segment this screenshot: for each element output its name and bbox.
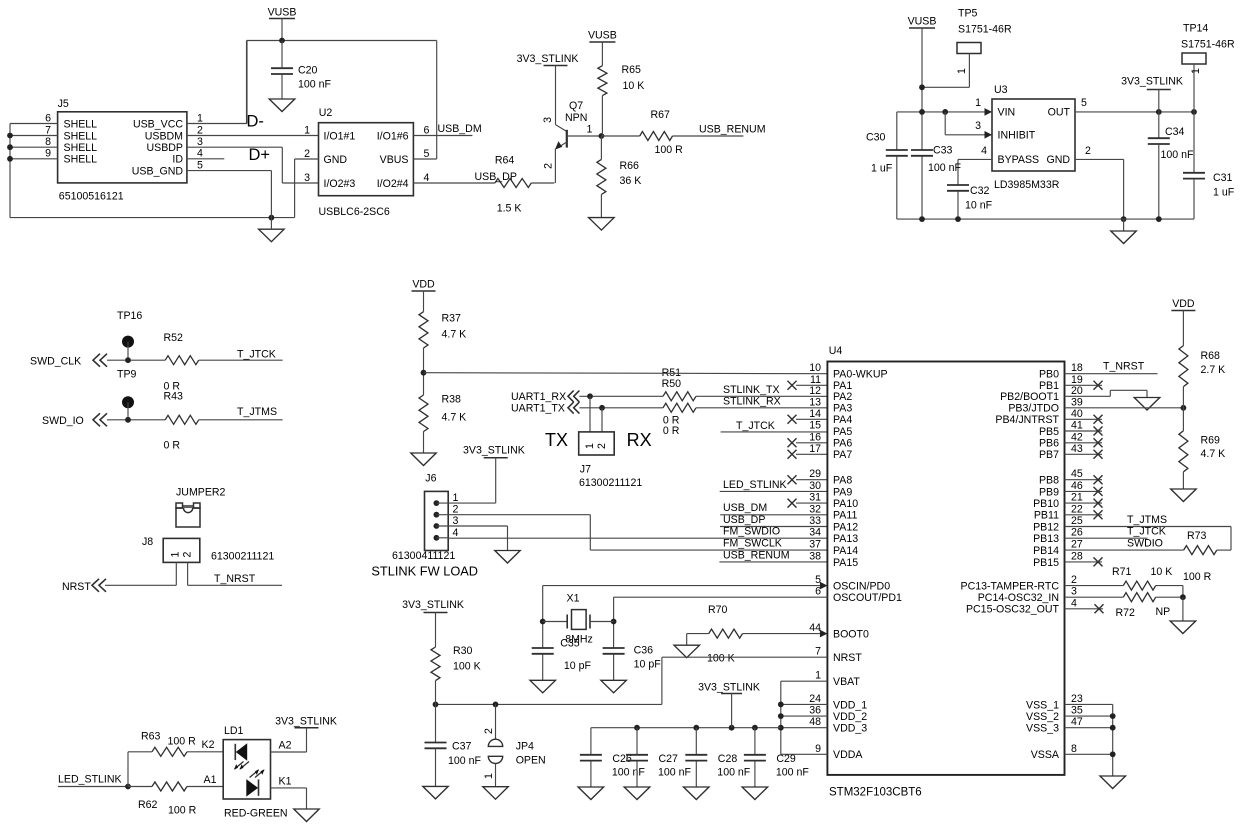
svg-text:39: 39 bbox=[1071, 396, 1083, 408]
svg-text:PB9: PB9 bbox=[1039, 486, 1059, 498]
svg-text:PA10: PA10 bbox=[833, 498, 858, 510]
svg-text:PB0: PB0 bbox=[1039, 369, 1059, 381]
svg-text:R62: R62 bbox=[138, 799, 158, 811]
svg-text:PA11: PA11 bbox=[833, 510, 857, 522]
svg-text:14: 14 bbox=[809, 408, 821, 420]
svg-text:6: 6 bbox=[45, 112, 51, 124]
svg-text:PA3: PA3 bbox=[833, 403, 852, 415]
svg-text:PB14: PB14 bbox=[1033, 545, 1059, 557]
svg-text:34: 34 bbox=[809, 527, 821, 539]
svg-text:6: 6 bbox=[424, 124, 430, 136]
svg-text:LD3985M33R: LD3985M33R bbox=[994, 179, 1060, 191]
svg-text:USB_DM: USB_DM bbox=[723, 502, 767, 514]
svg-text:R43: R43 bbox=[164, 391, 184, 403]
svg-text:PB13: PB13 bbox=[1033, 533, 1059, 545]
svg-text:U3: U3 bbox=[994, 84, 1008, 96]
svg-text:2: 2 bbox=[197, 124, 203, 136]
svg-text:3V3_STLINK: 3V3_STLINK bbox=[463, 445, 525, 457]
svg-text:TP9: TP9 bbox=[117, 369, 137, 381]
svg-text:USB_DP: USB_DP bbox=[475, 171, 517, 183]
svg-text:VUSB: VUSB bbox=[908, 16, 937, 28]
svg-text:42: 42 bbox=[1071, 431, 1083, 443]
svg-text:I/O1#1: I/O1#1 bbox=[324, 130, 356, 142]
svg-text:40: 40 bbox=[1071, 408, 1083, 420]
svg-text:PB6: PB6 bbox=[1039, 438, 1059, 450]
svg-text:TP16: TP16 bbox=[117, 310, 142, 322]
svg-text:TX: TX bbox=[545, 430, 568, 450]
svg-text:PA6: PA6 bbox=[833, 438, 852, 450]
svg-text:Q7: Q7 bbox=[569, 100, 583, 112]
svg-text:0 R: 0 R bbox=[663, 425, 680, 437]
svg-text:PA2: PA2 bbox=[833, 391, 852, 403]
svg-text:PA9: PA9 bbox=[833, 486, 852, 498]
svg-text:R65: R65 bbox=[622, 64, 642, 76]
svg-text:36: 36 bbox=[809, 705, 821, 717]
svg-text:47: 47 bbox=[1071, 716, 1083, 728]
svg-text:USB_DP: USB_DP bbox=[723, 514, 765, 526]
svg-text:PA12: PA12 bbox=[833, 521, 858, 533]
svg-text:LED_STLINK: LED_STLINK bbox=[723, 479, 787, 491]
svg-text:PA14: PA14 bbox=[833, 545, 858, 557]
svg-text:1: 1 bbox=[170, 551, 182, 557]
svg-text:VSS_2: VSS_2 bbox=[1026, 711, 1059, 723]
svg-text:100 nF: 100 nF bbox=[928, 162, 962, 174]
svg-text:2: 2 bbox=[1085, 145, 1091, 157]
svg-text:100 nF: 100 nF bbox=[658, 767, 692, 779]
svg-text:C34: C34 bbox=[1165, 126, 1185, 138]
svg-text:T_NRST: T_NRST bbox=[214, 573, 256, 585]
svg-text:INHIBIT: INHIBIT bbox=[998, 130, 1036, 142]
svg-text:A1: A1 bbox=[204, 774, 217, 786]
svg-text:61300211121: 61300211121 bbox=[579, 477, 642, 489]
svg-text:1: 1 bbox=[304, 124, 310, 136]
svg-text:100 nF: 100 nF bbox=[298, 79, 332, 91]
svg-text:4.7 K: 4.7 K bbox=[1201, 448, 1226, 460]
svg-text:VSS_1: VSS_1 bbox=[1026, 699, 1059, 711]
svg-text:VDD_3: VDD_3 bbox=[833, 723, 867, 735]
svg-text:20: 20 bbox=[1071, 385, 1083, 397]
svg-text:I/O2#4: I/O2#4 bbox=[377, 178, 409, 190]
svg-text:2.7 K: 2.7 K bbox=[1201, 364, 1226, 376]
svg-text:PA5: PA5 bbox=[833, 426, 852, 438]
svg-text:1: 1 bbox=[197, 112, 203, 124]
svg-text:33: 33 bbox=[809, 515, 821, 527]
svg-text:JP4: JP4 bbox=[516, 741, 534, 753]
svg-text:LD1: LD1 bbox=[224, 725, 244, 737]
svg-text:R37: R37 bbox=[442, 313, 462, 325]
svg-text:VDDA: VDDA bbox=[833, 749, 863, 761]
svg-text:PA15: PA15 bbox=[833, 557, 858, 569]
svg-text:BYPASS: BYPASS bbox=[998, 154, 1040, 166]
svg-text:STLINK_RX: STLINK_RX bbox=[723, 395, 781, 407]
svg-text:A2: A2 bbox=[279, 740, 292, 752]
svg-text:C27: C27 bbox=[659, 753, 679, 765]
svg-text:5: 5 bbox=[424, 148, 430, 160]
svg-text:VUSB: VUSB bbox=[268, 7, 297, 19]
svg-text:28: 28 bbox=[1071, 550, 1083, 562]
svg-text:C33: C33 bbox=[933, 145, 953, 157]
svg-text:T_JTCK: T_JTCK bbox=[1127, 526, 1166, 538]
svg-text:9: 9 bbox=[45, 148, 51, 160]
svg-text:PB2/BOOT1: PB2/BOOT1 bbox=[1000, 391, 1059, 403]
svg-text:OSCOUT/PD1: OSCOUT/PD1 bbox=[833, 592, 902, 604]
svg-text:8: 8 bbox=[45, 136, 51, 148]
svg-text:3: 3 bbox=[197, 136, 203, 148]
svg-text:VIN: VIN bbox=[998, 107, 1016, 119]
svg-text:R50: R50 bbox=[662, 378, 682, 390]
svg-text:T_JTMS: T_JTMS bbox=[237, 406, 277, 418]
svg-text:17: 17 bbox=[809, 443, 821, 455]
svg-text:R67: R67 bbox=[651, 109, 671, 121]
svg-text:VDD_2: VDD_2 bbox=[833, 711, 867, 723]
svg-text:VBUS: VBUS bbox=[380, 154, 409, 166]
svg-text:24: 24 bbox=[809, 693, 821, 705]
svg-text:PA8: PA8 bbox=[833, 475, 852, 487]
svg-text:NRST: NRST bbox=[62, 581, 91, 593]
svg-text:T_JTMS: T_JTMS bbox=[1127, 514, 1167, 526]
svg-text:2: 2 bbox=[483, 728, 495, 734]
svg-text:41: 41 bbox=[1071, 420, 1083, 432]
svg-text:PB10: PB10 bbox=[1033, 498, 1059, 510]
svg-text:10 K: 10 K bbox=[1151, 566, 1173, 578]
svg-text:C28: C28 bbox=[718, 753, 738, 765]
svg-text:3: 3 bbox=[542, 117, 554, 123]
svg-text:S1751-46R: S1751-46R bbox=[958, 24, 1012, 36]
svg-text:37: 37 bbox=[809, 539, 821, 551]
svg-text:R72: R72 bbox=[1116, 607, 1136, 619]
svg-text:1: 1 bbox=[453, 492, 459, 504]
svg-text:48: 48 bbox=[809, 716, 821, 728]
svg-text:35: 35 bbox=[1071, 705, 1083, 717]
svg-text:VBAT: VBAT bbox=[833, 676, 860, 688]
svg-text:R63: R63 bbox=[141, 731, 161, 743]
svg-text:16: 16 bbox=[809, 431, 821, 443]
svg-text:1.5 K: 1.5 K bbox=[497, 203, 522, 215]
svg-text:3: 3 bbox=[453, 515, 459, 527]
svg-text:D+: D+ bbox=[249, 146, 271, 164]
svg-text:C37: C37 bbox=[452, 741, 472, 753]
svg-text:STLINK FW LOAD: STLINK FW LOAD bbox=[371, 563, 478, 578]
svg-text:T_JTCK: T_JTCK bbox=[237, 349, 276, 361]
svg-text:1: 1 bbox=[584, 443, 596, 449]
svg-text:100 R: 100 R bbox=[168, 805, 197, 817]
svg-text:VDD_1: VDD_1 bbox=[833, 699, 867, 711]
svg-text:PB12: PB12 bbox=[1033, 521, 1059, 533]
svg-text:4: 4 bbox=[424, 172, 430, 184]
svg-text:4.7 K: 4.7 K bbox=[442, 329, 467, 341]
svg-text:65100516121: 65100516121 bbox=[59, 191, 124, 203]
svg-text:12: 12 bbox=[809, 385, 821, 397]
svg-text:PB8: PB8 bbox=[1039, 475, 1059, 487]
svg-text:7: 7 bbox=[815, 646, 821, 658]
svg-text:OUT: OUT bbox=[1048, 107, 1071, 119]
svg-text:32: 32 bbox=[809, 503, 821, 515]
svg-text:U2: U2 bbox=[319, 107, 333, 119]
svg-text:1 uF: 1 uF bbox=[871, 163, 893, 175]
svg-text:9: 9 bbox=[815, 743, 821, 755]
svg-text:I/O2#3: I/O2#3 bbox=[324, 178, 356, 190]
svg-text:100 nF: 100 nF bbox=[612, 767, 646, 779]
svg-text:46: 46 bbox=[1071, 480, 1083, 492]
svg-text:R69: R69 bbox=[1201, 435, 1221, 447]
svg-text:1: 1 bbox=[587, 124, 593, 136]
svg-text:BOOT0: BOOT0 bbox=[833, 629, 869, 641]
svg-text:USBDM: USBDM bbox=[145, 130, 183, 142]
svg-text:100 nF: 100 nF bbox=[776, 767, 810, 779]
svg-text:100 K: 100 K bbox=[453, 661, 481, 673]
svg-text:ID: ID bbox=[172, 154, 183, 166]
svg-text:USBLC6-2SC6: USBLC6-2SC6 bbox=[319, 206, 390, 218]
svg-text:10 pF: 10 pF bbox=[634, 659, 662, 671]
svg-text:R71: R71 bbox=[1112, 566, 1132, 578]
svg-text:4.7 K: 4.7 K bbox=[442, 412, 467, 424]
svg-text:27: 27 bbox=[1071, 539, 1083, 551]
svg-text:8MHz: 8MHz bbox=[565, 633, 593, 645]
svg-text:1: 1 bbox=[483, 773, 495, 779]
svg-text:R52: R52 bbox=[164, 332, 184, 344]
svg-text:NPN: NPN bbox=[565, 112, 587, 124]
svg-text:OPEN: OPEN bbox=[516, 755, 546, 767]
svg-text:C31: C31 bbox=[1213, 172, 1233, 184]
svg-text:SHELL: SHELL bbox=[64, 118, 98, 130]
svg-text:2: 2 bbox=[304, 148, 310, 160]
svg-text:C32: C32 bbox=[970, 185, 990, 197]
svg-text:S1751-46R: S1751-46R bbox=[1181, 39, 1235, 51]
svg-text:4: 4 bbox=[981, 145, 987, 157]
svg-text:44: 44 bbox=[809, 622, 821, 634]
svg-text:3V3_STLINK: 3V3_STLINK bbox=[275, 716, 337, 728]
svg-text:PB11: PB11 bbox=[1034, 510, 1059, 522]
svg-text:0 R: 0 R bbox=[164, 439, 181, 451]
svg-text:R73: R73 bbox=[1187, 530, 1207, 542]
svg-text:J5: J5 bbox=[58, 98, 69, 110]
svg-text:22: 22 bbox=[1071, 503, 1083, 515]
svg-text:D-: D- bbox=[247, 113, 264, 131]
svg-text:GND: GND bbox=[1046, 154, 1070, 166]
svg-text:PB3/JTDO: PB3/JTDO bbox=[1008, 403, 1059, 415]
svg-text:K2: K2 bbox=[202, 739, 215, 751]
svg-text:1: 1 bbox=[975, 97, 981, 109]
svg-text:3V3_STLINK: 3V3_STLINK bbox=[517, 53, 579, 65]
svg-text:PB7: PB7 bbox=[1039, 449, 1059, 461]
svg-text:FM_SWDIO: FM_SWDIO bbox=[723, 526, 780, 538]
svg-text:13: 13 bbox=[809, 396, 821, 408]
svg-text:VDD: VDD bbox=[412, 279, 435, 291]
svg-text:38: 38 bbox=[809, 550, 821, 562]
svg-text:K1: K1 bbox=[279, 776, 292, 788]
svg-text:U4: U4 bbox=[829, 345, 843, 357]
svg-text:NP: NP bbox=[1156, 606, 1171, 618]
svg-text:10 K: 10 K bbox=[623, 80, 645, 92]
svg-text:LED_STLINK: LED_STLINK bbox=[58, 774, 122, 786]
svg-text:T_JTCK: T_JTCK bbox=[736, 420, 775, 432]
svg-text:25: 25 bbox=[1071, 515, 1083, 527]
svg-text:4: 4 bbox=[453, 527, 459, 539]
svg-text:PA7: PA7 bbox=[833, 449, 852, 461]
svg-text:PC13-TAMPER-RTC: PC13-TAMPER-RTC bbox=[961, 581, 1060, 593]
svg-text:SHELL: SHELL bbox=[64, 130, 98, 142]
svg-text:J8: J8 bbox=[142, 536, 153, 548]
svg-text:1: 1 bbox=[956, 68, 968, 74]
svg-text:VDD: VDD bbox=[1172, 298, 1195, 310]
svg-text:USB_RENUM: USB_RENUM bbox=[699, 124, 766, 136]
svg-text:10 nF: 10 nF bbox=[965, 200, 993, 212]
svg-text:15: 15 bbox=[809, 420, 821, 432]
svg-text:26: 26 bbox=[1071, 527, 1083, 539]
svg-text:1: 1 bbox=[1190, 68, 1202, 74]
svg-text:29: 29 bbox=[809, 468, 821, 480]
svg-text:SWD_CLK: SWD_CLK bbox=[30, 356, 81, 368]
svg-text:J7: J7 bbox=[580, 464, 591, 476]
svg-text:USBDP: USBDP bbox=[147, 142, 184, 154]
svg-text:PC15-OSC32_OUT: PC15-OSC32_OUT bbox=[966, 604, 1060, 616]
svg-text:100 nF: 100 nF bbox=[448, 755, 482, 767]
svg-text:R38: R38 bbox=[442, 394, 462, 406]
svg-text:R30: R30 bbox=[453, 645, 473, 657]
svg-text:2: 2 bbox=[596, 443, 608, 449]
svg-text:JUMPER2: JUMPER2 bbox=[176, 487, 226, 499]
svg-text:C30: C30 bbox=[866, 132, 886, 144]
svg-text:31: 31 bbox=[809, 492, 821, 504]
svg-text:R66: R66 bbox=[620, 160, 640, 172]
svg-text:SWDIO: SWDIO bbox=[1127, 537, 1163, 549]
svg-text:SWD_IO: SWD_IO bbox=[42, 415, 84, 427]
svg-text:PB5: PB5 bbox=[1039, 426, 1059, 438]
svg-text:8: 8 bbox=[1071, 743, 1077, 755]
svg-text:FM_SWCLK: FM_SWCLK bbox=[723, 538, 782, 550]
svg-text:2: 2 bbox=[453, 504, 459, 516]
svg-text:5: 5 bbox=[1081, 97, 1087, 109]
svg-text:STM32F103CBT6: STM32F103CBT6 bbox=[829, 787, 922, 799]
svg-text:R70: R70 bbox=[708, 604, 728, 616]
svg-text:2: 2 bbox=[1071, 574, 1077, 586]
svg-text:10: 10 bbox=[809, 362, 821, 374]
svg-text:100 R: 100 R bbox=[168, 736, 197, 748]
svg-text:3V3_STLINK: 3V3_STLINK bbox=[402, 599, 464, 611]
svg-text:VSSA: VSSA bbox=[1031, 749, 1060, 761]
svg-text:OSCIN/PD0: OSCIN/PD0 bbox=[833, 581, 890, 593]
svg-text:C36: C36 bbox=[634, 645, 654, 657]
svg-text:3V3_STLINK: 3V3_STLINK bbox=[698, 682, 760, 694]
svg-text:21: 21 bbox=[1071, 492, 1083, 504]
svg-text:SHELL: SHELL bbox=[64, 142, 98, 154]
svg-text:NRST: NRST bbox=[833, 652, 862, 664]
svg-text:C20: C20 bbox=[298, 65, 318, 77]
svg-text:USB_VCC: USB_VCC bbox=[133, 118, 183, 130]
svg-text:3: 3 bbox=[1071, 586, 1077, 598]
svg-text:23: 23 bbox=[1071, 693, 1083, 705]
svg-text:R68: R68 bbox=[1201, 350, 1221, 362]
svg-text:1 uF: 1 uF bbox=[1213, 187, 1235, 199]
svg-text:PA0-WKUP: PA0-WKUP bbox=[833, 369, 888, 381]
svg-text:100 K: 100 K bbox=[707, 653, 735, 665]
svg-text:18: 18 bbox=[1071, 362, 1083, 374]
svg-text:PB4/JNTRST: PB4/JNTRST bbox=[995, 414, 1059, 426]
svg-text:UART1_TX: UART1_TX bbox=[511, 402, 565, 414]
svg-text:61300411121: 61300411121 bbox=[392, 550, 455, 562]
svg-text:C29: C29 bbox=[776, 753, 796, 765]
svg-text:TP5: TP5 bbox=[958, 8, 978, 20]
svg-text:VSS_3: VSS_3 bbox=[1026, 723, 1059, 735]
svg-text:VUSB: VUSB bbox=[588, 30, 617, 42]
svg-text:43: 43 bbox=[1071, 443, 1083, 455]
svg-text:UART1_RX: UART1_RX bbox=[511, 391, 566, 403]
svg-text:100 R: 100 R bbox=[655, 144, 684, 156]
svg-text:45: 45 bbox=[1071, 468, 1083, 480]
svg-text:USB_DM: USB_DM bbox=[438, 123, 482, 135]
svg-text:SHELL: SHELL bbox=[64, 154, 98, 166]
svg-text:100 R: 100 R bbox=[1183, 571, 1212, 583]
svg-text:36 K: 36 K bbox=[620, 175, 642, 187]
svg-text:4: 4 bbox=[197, 148, 203, 160]
svg-text:100 nF: 100 nF bbox=[717, 767, 751, 779]
svg-text:1: 1 bbox=[815, 670, 821, 682]
svg-text:X1: X1 bbox=[567, 593, 580, 605]
svg-text:R64: R64 bbox=[495, 155, 515, 167]
svg-text:GND: GND bbox=[324, 154, 348, 166]
svg-text:7: 7 bbox=[45, 124, 51, 136]
svg-text:PC14-OSC32_IN: PC14-OSC32_IN bbox=[978, 592, 1059, 604]
svg-text:3: 3 bbox=[304, 172, 310, 184]
svg-text:PA4: PA4 bbox=[833, 414, 852, 426]
svg-text:3V3_STLINK: 3V3_STLINK bbox=[1121, 76, 1183, 88]
svg-text:2: 2 bbox=[182, 551, 194, 557]
svg-text:4: 4 bbox=[1071, 597, 1077, 609]
svg-text:T_NRST: T_NRST bbox=[1103, 361, 1145, 373]
svg-text:5: 5 bbox=[197, 159, 203, 171]
svg-text:PB15: PB15 bbox=[1033, 557, 1059, 569]
svg-text:RX: RX bbox=[627, 430, 652, 450]
svg-text:3: 3 bbox=[975, 120, 981, 132]
svg-text:61300211121: 61300211121 bbox=[211, 551, 274, 563]
svg-text:TP14: TP14 bbox=[1183, 23, 1208, 35]
svg-text:STLINK_TX: STLINK_TX bbox=[723, 384, 780, 396]
svg-text:J6: J6 bbox=[425, 473, 436, 485]
svg-text:PA13: PA13 bbox=[833, 533, 858, 545]
svg-text:USB_RENUM: USB_RENUM bbox=[723, 549, 790, 561]
svg-text:I/O1#6: I/O1#6 bbox=[377, 130, 409, 142]
svg-text:100 nF: 100 nF bbox=[1161, 149, 1195, 161]
svg-text:2: 2 bbox=[543, 163, 555, 169]
svg-text:RED-GREEN: RED-GREEN bbox=[224, 808, 288, 820]
svg-text:10 pF: 10 pF bbox=[564, 660, 592, 672]
svg-text:30: 30 bbox=[809, 480, 821, 492]
svg-text:USB_GND: USB_GND bbox=[132, 166, 184, 178]
